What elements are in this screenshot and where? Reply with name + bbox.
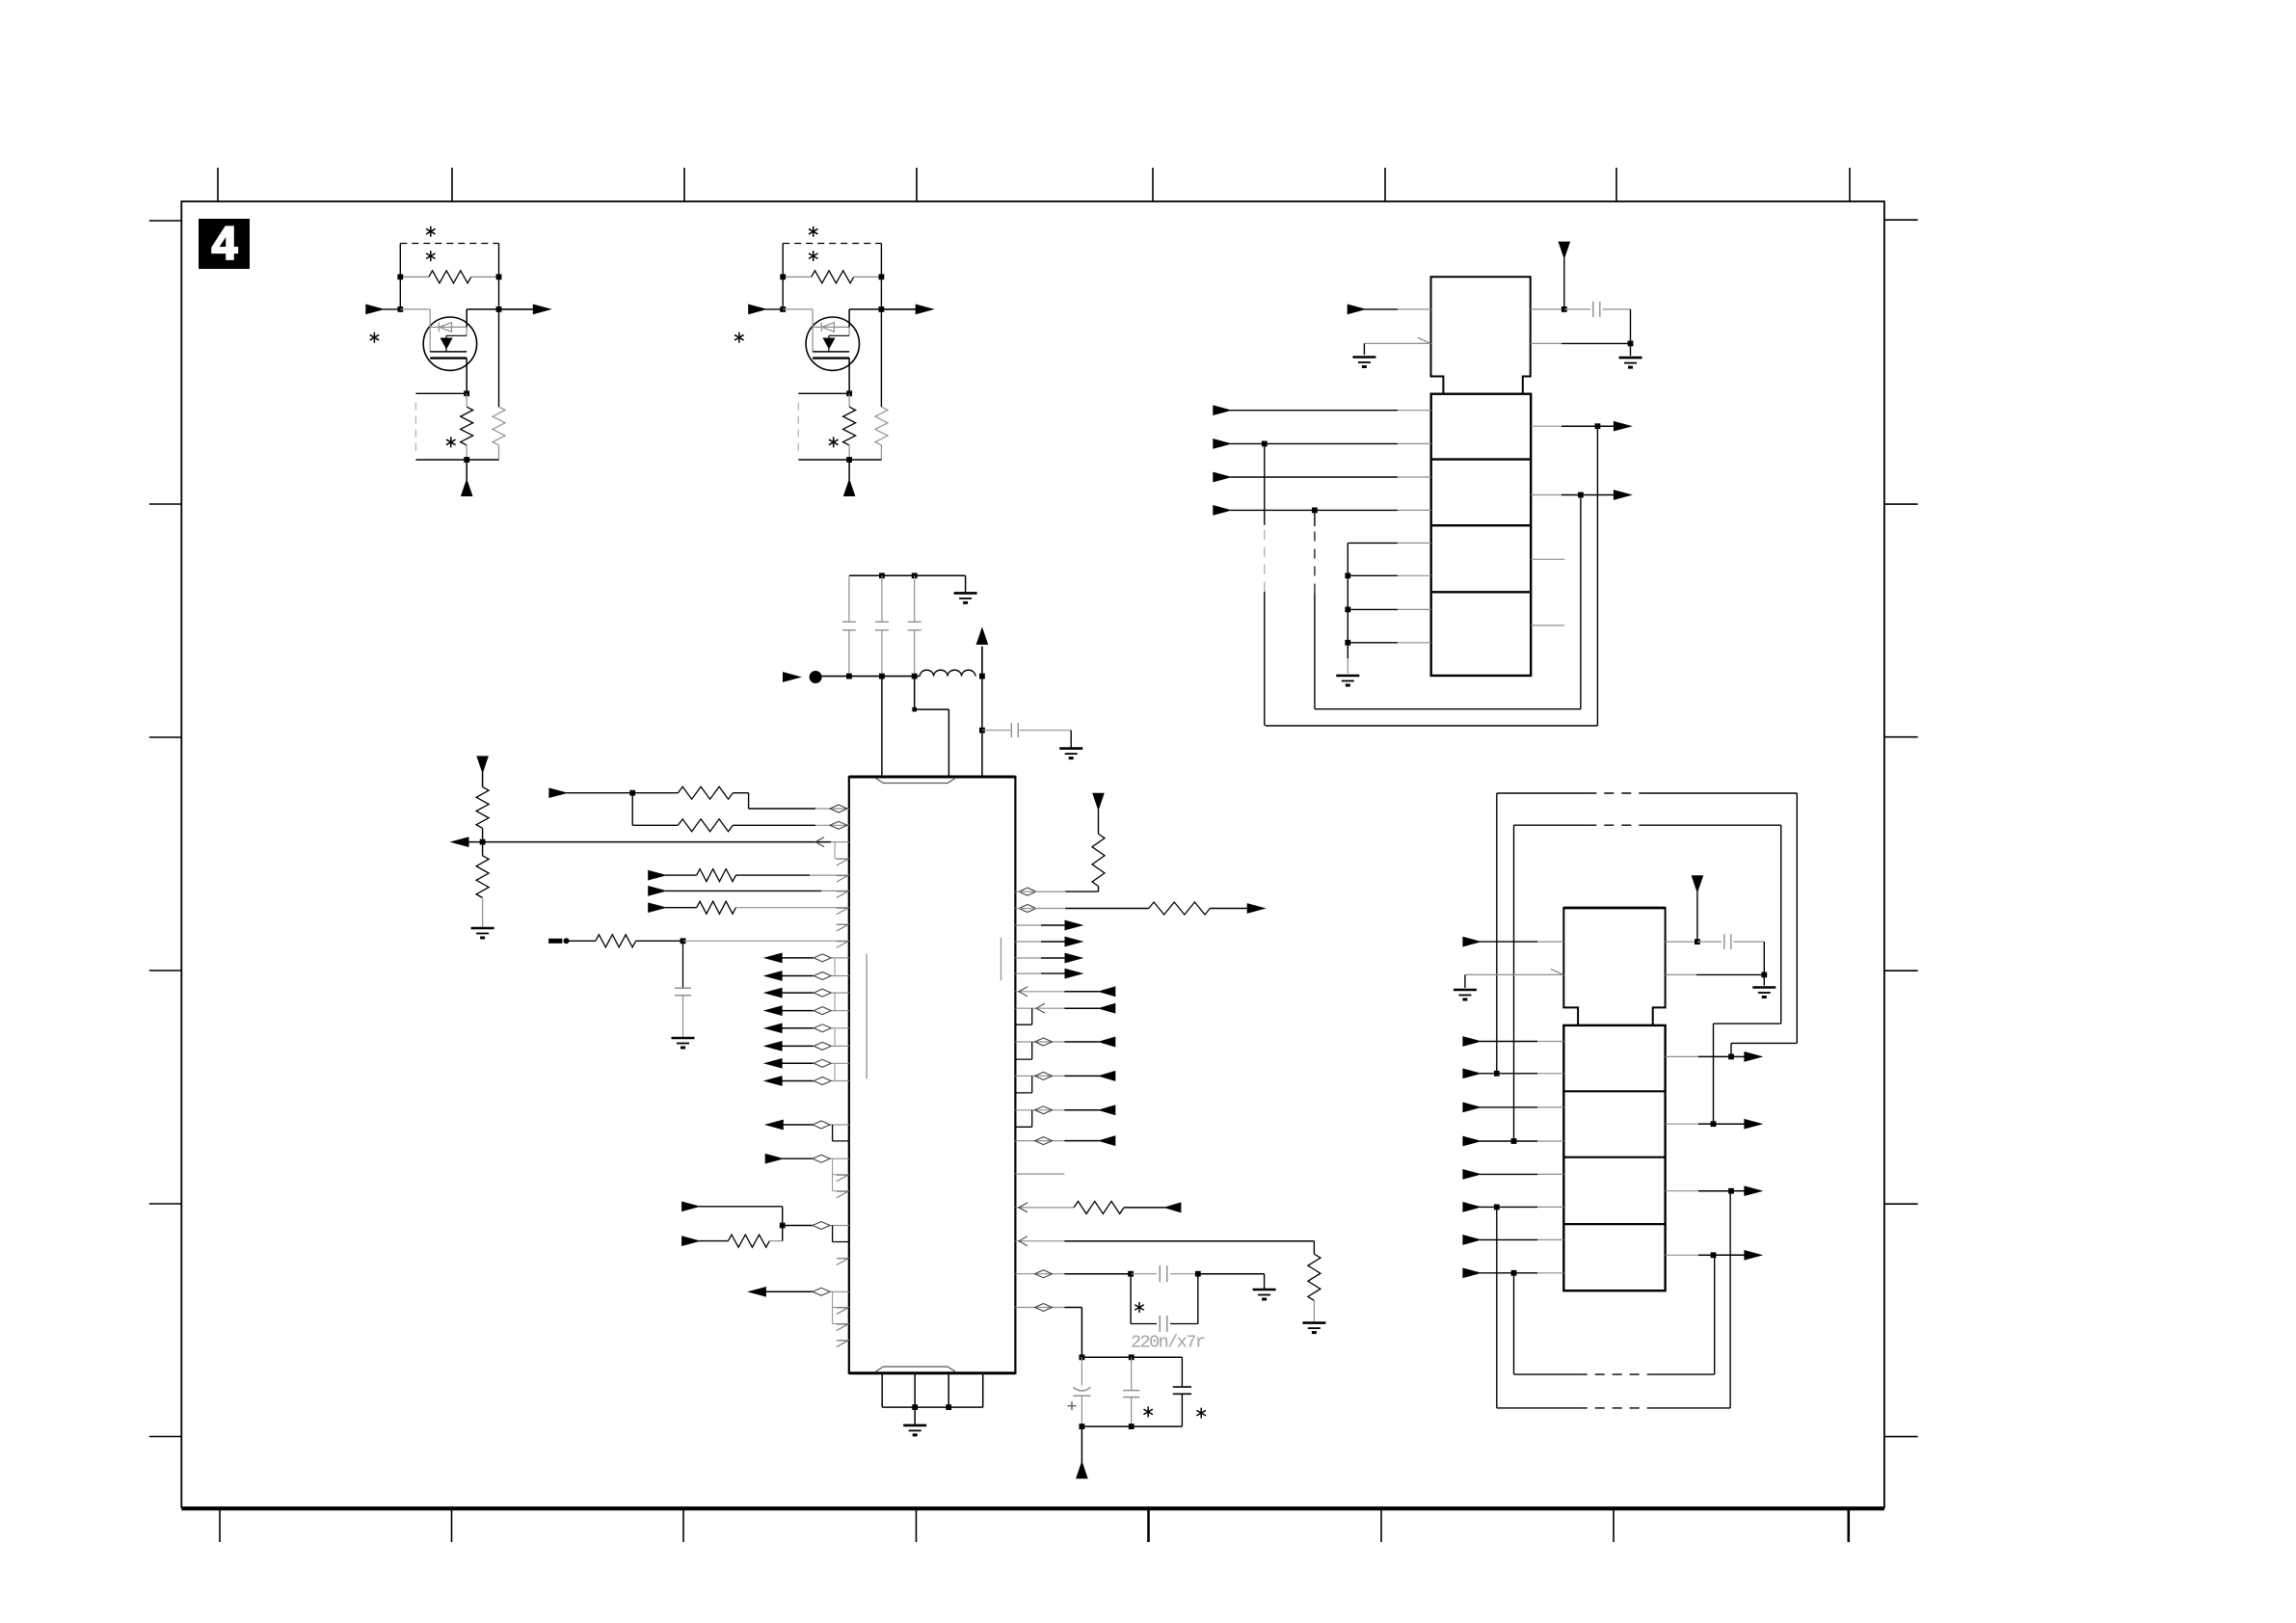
- pin diamond OL9: [813, 1121, 830, 1129]
- page border frame: [181, 201, 1884, 1507]
- node R1a: [1128, 1271, 1134, 1277]
- resistor R21: [1149, 902, 1211, 915]
- node FO1: [1728, 1054, 1734, 1060]
- nc stub CN1-O4: [1531, 625, 1564, 626]
- wire input to gate node 2: [765, 308, 783, 310]
- output arrow OL3: [765, 988, 783, 997]
- output wire CN1-O1: [1531, 425, 1562, 427]
- transistor Q1 drain lead: [466, 309, 467, 328]
- wire OL4: [782, 1010, 814, 1012]
- node U2a: [1562, 306, 1567, 312]
- node 1C: [397, 306, 403, 312]
- transistor Q1 substrate arrow: [445, 335, 447, 352]
- wire node T4 to IC pin: [881, 677, 883, 777]
- node R2d: [1129, 1423, 1135, 1429]
- input arrow IN5: [765, 1155, 783, 1163]
- capacitor C3: [914, 575, 916, 622]
- input arrow IN1: [549, 788, 567, 797]
- node 2B: [879, 274, 885, 279]
- supply arrow (down) at divider: [477, 757, 488, 773]
- node F5: [1494, 1071, 1500, 1077]
- input feed IR6: [1015, 1140, 1064, 1142]
- ground (CN1 bus): [1336, 675, 1359, 678]
- output arrow OL9: [766, 1120, 784, 1129]
- input arrow CN1-1: [1214, 406, 1231, 414]
- supply arrow 2 (up): [848, 460, 850, 480]
- asterisk C7: [1138, 1302, 1140, 1313]
- pin diamond OL4: [814, 1007, 831, 1015]
- IC bottom pin wires: [881, 1373, 883, 1407]
- feedback loop B: [1580, 495, 1582, 709]
- wire T5 jog to IC pin: [914, 677, 916, 710]
- wire CN2 input 6: [1480, 1206, 1537, 1208]
- capacitor C10: [1181, 1357, 1183, 1387]
- transistor Q2 drain lead: [848, 309, 850, 328]
- node L4: [780, 1223, 786, 1229]
- bottom rail wire 1: [415, 459, 498, 461]
- inductor L1: [915, 676, 921, 678]
- input arrow IN3: [649, 887, 666, 895]
- node U3a: [1695, 939, 1700, 945]
- wire CN2 input 2: [1480, 1073, 1537, 1075]
- wire pin 942: [1015, 908, 1065, 910]
- outer feedback rect (bottom block): [1496, 793, 1498, 1074]
- node T1: [879, 572, 885, 578]
- node GB1: [1345, 572, 1350, 578]
- wire bus to ground: [914, 1407, 916, 1424]
- input arrow U3: [1463, 937, 1481, 945]
- ground (top rail): [954, 592, 977, 595]
- capacitor C4 (to ground): [982, 730, 1010, 732]
- transistor Q2 substrate arrow: [828, 335, 830, 352]
- node 1B: [496, 274, 502, 279]
- wire IN3 to pin: [665, 890, 821, 891]
- node F4: [1578, 492, 1584, 498]
- node 1F: [464, 457, 469, 463]
- wire node B down to output rail 2: [880, 277, 882, 309]
- right border tick marks: [1884, 219, 1918, 221]
- output arrow CN2-O2: [1714, 1123, 1746, 1125]
- wire IN5: [783, 1157, 814, 1159]
- node R2a: [1080, 1354, 1085, 1360]
- output wire CN2-O2: [1666, 1123, 1698, 1125]
- capacitor C6 (220n upper): [1131, 1273, 1157, 1275]
- resistor R11 (gate-drain): [400, 276, 429, 278]
- capacitor C11: [1564, 308, 1590, 310]
- wire input to gate node 1: [383, 308, 400, 310]
- wire U2 input: [1365, 308, 1398, 310]
- pin diamond IN6: [813, 1222, 830, 1230]
- input feed IR1: [1015, 991, 1064, 993]
- pin diamond OL3: [814, 989, 831, 997]
- output arrow CN2-O3: [1731, 1190, 1746, 1192]
- pin diamond R925: [1019, 888, 1036, 895]
- wire U3 input: [1480, 941, 1537, 943]
- node FO2: [1711, 1121, 1717, 1127]
- transistor Q2 gate lead: [783, 308, 813, 310]
- long wire row 873: [468, 841, 832, 843]
- node 2A: [780, 274, 786, 279]
- node T5: [912, 674, 918, 679]
- IC bottom ground bus: [882, 1406, 983, 1408]
- transistor Q1 channel plate: [430, 357, 467, 359]
- capacitor C1: [848, 575, 850, 622]
- pin diamond row 839: [830, 805, 847, 812]
- capacitor C5: [682, 941, 684, 988]
- output arrow OL4: [765, 1006, 783, 1015]
- wire U3b to ground: [1763, 974, 1765, 985]
- pin staple group left: [834, 958, 836, 976]
- pin diamond OL7: [814, 1059, 831, 1067]
- connector CN2 outline: [1563, 1025, 1665, 1290]
- wire node C up to resistor 2: [782, 277, 784, 309]
- resistor R14: [665, 874, 697, 876]
- output arrow OL7: [765, 1059, 783, 1068]
- wire CN2 input 7: [1480, 1238, 1537, 1240]
- wire U2 gnd pin: [1531, 342, 1562, 344]
- asterisk marker above resistor 1: [430, 226, 432, 237]
- asterisk marker left of Q2: [738, 333, 740, 343]
- wire U3 left gnd: [1465, 973, 1563, 975]
- pin diamond OL10: [813, 1288, 830, 1295]
- page number label 4: [199, 219, 250, 269]
- wire CN2 input 3: [1480, 1106, 1537, 1108]
- pin diamond OL6: [814, 1042, 831, 1050]
- capacitor C12: [1697, 941, 1722, 943]
- node R2b: [1129, 1354, 1135, 1360]
- pin wedge row 924: [837, 891, 848, 898]
- input arrow IN7: [682, 1237, 700, 1245]
- IC U1 top inner bracket: [876, 779, 956, 784]
- output arrow OR4: [1015, 972, 1041, 974]
- capacitor C8 (electrolytic): [1081, 1357, 1082, 1385]
- pin wedge U2 left: [1418, 338, 1431, 344]
- wire U2 left gnd: [1364, 342, 1430, 344]
- wire OL2: [782, 975, 814, 977]
- outer feedback rect lower: [1496, 1207, 1498, 1408]
- resistor R12 (source): [466, 393, 467, 407]
- resistor R17: [699, 1240, 728, 1242]
- ground (U2 right): [1619, 357, 1642, 359]
- node GB3: [1345, 640, 1350, 646]
- pin diamond IN5: [813, 1155, 830, 1162]
- node GB2: [1345, 607, 1350, 613]
- plus sign C8: [1068, 1405, 1077, 1407]
- ground (C4): [1059, 747, 1082, 750]
- input arrow CN2-3: [1463, 1103, 1481, 1111]
- input feed IR3: [1015, 1041, 1064, 1043]
- IC U1 internal bus line B: [1001, 938, 1002, 981]
- wire node L4 to pin: [783, 1225, 814, 1227]
- supply arrow 1 (up): [466, 460, 467, 480]
- regulator U3 body: [1563, 908, 1665, 1025]
- node L1: [629, 790, 635, 796]
- resistor R22 (source): [848, 393, 850, 407]
- node FO3: [1728, 1188, 1734, 1194]
- output arrow OL10: [749, 1288, 766, 1296]
- pin wedge row 890: [837, 859, 848, 865]
- node R1b: [1195, 1271, 1201, 1277]
- output wire CN1-O2: [1531, 494, 1562, 496]
- wire CN1 input 1: [1230, 410, 1398, 412]
- output arrow OUT-L: [452, 838, 469, 846]
- dashed option-component box 1a: [400, 243, 498, 245]
- pin jog OL9: [832, 1125, 834, 1141]
- top border tick marks: [217, 168, 219, 201]
- gnd bus stub 2: [1348, 608, 1398, 610]
- gnd bus stub 3: [1348, 642, 1398, 644]
- pin diamond row 856: [830, 821, 847, 829]
- output arrow OR2: [1015, 941, 1041, 943]
- ground (U3 left): [1454, 989, 1477, 992]
- asterisk marker lower resistor 1: [450, 437, 452, 447]
- supply arrow (down) U2: [1559, 242, 1569, 258]
- input arrow IN4: [649, 903, 666, 912]
- input arrow CN2-1: [1463, 1037, 1481, 1046]
- bottom rail wire 2: [798, 459, 881, 461]
- IC U1 bottom edge accent: [849, 1371, 1016, 1374]
- input arrow U2: [1348, 305, 1365, 313]
- svg-text:220n/x7r: 220n/x7r: [1131, 1333, 1206, 1353]
- inner feedback rect lower: [1513, 1273, 1515, 1374]
- resistor R15: [665, 907, 697, 909]
- output arrow 2 (source rail): [881, 308, 916, 310]
- resistor R23 (source parallel): [880, 309, 882, 407]
- node F1 (feedback A tap): [1262, 441, 1268, 447]
- asterisk marker above resistor 2: [813, 226, 814, 237]
- transistor Q2 body-diode: [813, 326, 849, 328]
- output arrow OR0: [1247, 904, 1265, 913]
- node 1D: [496, 306, 502, 312]
- dashed option-component box 2a: [783, 243, 881, 245]
- cap bank bottom rail: [1081, 1425, 1182, 1427]
- output wire CN2-O1: [1666, 1055, 1698, 1057]
- output arrow OL1: [765, 953, 783, 962]
- node 1A: [397, 274, 403, 279]
- input arrow CN2-5: [1463, 1170, 1481, 1179]
- output arrow OR1: [1015, 924, 1041, 926]
- supply input arrow (VCC in): [784, 673, 801, 681]
- wire OL3: [782, 992, 814, 994]
- dashed option box lower 2: [797, 403, 799, 452]
- ground (C5): [672, 1037, 695, 1040]
- supply arrow (down) U3: [1692, 876, 1702, 892]
- ground (R23): [1302, 1321, 1325, 1324]
- asterisk C9: [1147, 1406, 1149, 1417]
- node F7: [1494, 1205, 1500, 1211]
- transistor Q1 body-diode: [430, 326, 467, 328]
- pin wedges lower-left: [837, 1259, 848, 1265]
- wire row 1321: [1015, 1273, 1064, 1275]
- transistor Q2 gate plate: [813, 351, 849, 353]
- node T4: [879, 674, 885, 679]
- output wire CN2-O3: [1666, 1190, 1698, 1192]
- pin chevron row 873: [815, 838, 824, 847]
- transistor Q1 gate lead: [400, 308, 430, 310]
- capacitor C7 (220n lower): [1130, 1274, 1132, 1324]
- output arrow OL5: [765, 1024, 783, 1032]
- connector CN2 divider 3: [1563, 1223, 1665, 1225]
- transistor Q2 channel plate: [813, 357, 849, 359]
- input arrow IN6: [682, 1202, 700, 1211]
- pin wedge row 941: [837, 908, 848, 915]
- resistor R10: [632, 792, 678, 794]
- asterisk marker left of Q1: [373, 333, 375, 343]
- resistor R12 (upper divider): [476, 787, 489, 829]
- input arrow CN2-2: [1463, 1069, 1481, 1078]
- node L3: [681, 938, 686, 944]
- wire CN1 input 4: [1230, 509, 1398, 511]
- wire CN2 input 5: [1480, 1173, 1537, 1175]
- wire OL8: [782, 1080, 814, 1082]
- input arrow CN1-2: [1214, 439, 1231, 448]
- output arrow CN1-O2: [1581, 494, 1615, 496]
- node G2: [946, 1404, 951, 1410]
- pin staples OL10: [832, 1291, 834, 1323]
- input feed IR8: [1015, 1240, 1064, 1242]
- output arrow CN2-O1: [1731, 1055, 1746, 1057]
- nc stub row 1218: [1015, 1173, 1064, 1175]
- wire T6 down to IC pin: [981, 677, 983, 777]
- node F8: [1511, 1270, 1517, 1276]
- resistor R13 (lower divider): [482, 842, 484, 856]
- wire CN2 input 8: [1480, 1272, 1537, 1274]
- wire pin 925: [1015, 891, 1065, 892]
- wire IN1 to node: [566, 792, 632, 794]
- inner feedback rect (bottom block): [1513, 825, 1515, 1141]
- input arrow CN1-4: [1214, 506, 1231, 515]
- connector CN1 divider 2: [1431, 524, 1532, 526]
- input feed IR5: [1015, 1109, 1064, 1111]
- asterisk marker lower resistor 2: [833, 437, 835, 447]
- stub source mark: [548, 939, 562, 944]
- transistor Q1 source lead: [466, 359, 467, 394]
- nc stub CN1-O3: [1531, 558, 1564, 560]
- output arrow CN2-O4: [1714, 1254, 1746, 1256]
- resistor R13 (source parallel): [498, 309, 500, 407]
- asterisk C10: [1200, 1408, 1202, 1419]
- transistor Q2 body circle: [806, 317, 859, 370]
- dashed option box lower 1: [414, 403, 416, 452]
- node G1: [912, 1404, 918, 1410]
- transistor Q1 body circle: [423, 317, 476, 370]
- pin jog IN6: [832, 1226, 834, 1242]
- supply input dot: [810, 671, 822, 683]
- pin diamond OL2: [814, 972, 831, 980]
- node U3b: [1761, 972, 1767, 978]
- regulator U2 body: [1431, 277, 1531, 393]
- bottom border tick marks: [219, 1509, 221, 1542]
- input arrow 1 (gate): [366, 305, 384, 313]
- supply arrow (up, after inductor): [981, 647, 983, 677]
- input arrow CN2-4: [1463, 1136, 1481, 1145]
- pin diamond OL8: [814, 1078, 831, 1085]
- node 2F: [846, 457, 852, 463]
- pin wedge row 976: [837, 942, 848, 948]
- top decoupling rail wire: [849, 574, 966, 576]
- connector CN1 divider 1: [1431, 458, 1532, 460]
- ground (IC bottom): [903, 1424, 926, 1427]
- node 2D: [879, 306, 885, 312]
- wire OL9: [783, 1124, 814, 1126]
- pin diamond R942: [1019, 905, 1036, 913]
- input arrow CN2-6: [1463, 1203, 1481, 1211]
- output arrow OL6: [765, 1042, 783, 1051]
- input arrow CN1-3: [1214, 472, 1231, 481]
- pin wedge row 959: [837, 925, 848, 932]
- connector CN1 outline: [1431, 394, 1532, 676]
- IC U1 top edge accent: [849, 776, 1016, 779]
- wire row 1356: [1015, 1307, 1064, 1309]
- supply arrow (up) cap bank: [1081, 1426, 1082, 1466]
- wire CN2 input 4: [1480, 1140, 1537, 1142]
- asterisk marker below dashed line 2: [813, 251, 814, 261]
- node T8: [979, 728, 985, 733]
- input feed IR4: [1015, 1075, 1064, 1077]
- input arrow 2 (gate): [749, 305, 766, 313]
- output arrow OL2: [765, 971, 783, 980]
- pin diamond OL5: [814, 1024, 831, 1032]
- wire rail corner to ground: [965, 575, 967, 592]
- node T7: [912, 707, 917, 712]
- ground (U2 left): [1352, 356, 1375, 359]
- gnd bus wire CN1: [1347, 543, 1348, 658]
- wire U2 out: [1531, 308, 1564, 310]
- resistor R11: [632, 824, 678, 826]
- node T2: [912, 572, 918, 578]
- svg-text:4: 4: [212, 219, 238, 270]
- IC U1 body: [849, 777, 1016, 1373]
- cap bank top rail: [1081, 1356, 1182, 1358]
- output arrow OL8: [765, 1077, 783, 1085]
- wire OL7: [782, 1062, 814, 1064]
- pin wedge row 908: [837, 876, 848, 883]
- wire CN1 input 2: [1230, 442, 1398, 444]
- node T6: [979, 674, 985, 679]
- node 2C: [780, 306, 786, 312]
- input arrow IN2: [649, 870, 666, 879]
- output arrow CN1-O1: [1597, 425, 1615, 427]
- wire source node to option box 2: [798, 392, 849, 394]
- output arrow 1 (source rail): [499, 308, 534, 310]
- input arrow CN2-7: [1463, 1236, 1481, 1244]
- transistor Q2 source lead: [848, 359, 850, 394]
- node T3: [846, 674, 852, 679]
- connector CN1 divider 3: [1431, 591, 1532, 593]
- connector CN2 divider 2: [1563, 1157, 1665, 1158]
- wire U3 gnd pin: [1666, 973, 1696, 975]
- wire OL6: [782, 1045, 814, 1047]
- capacitor C9: [1131, 1357, 1133, 1390]
- wire source node to option box 1: [415, 392, 467, 394]
- IC U1 bottom inner bracket: [876, 1367, 956, 1371]
- resistor R16: [569, 940, 596, 942]
- pin diamond OL1: [814, 954, 831, 962]
- wire U3 out: [1666, 941, 1697, 943]
- capacitor C2: [881, 575, 883, 622]
- node 1E (source): [464, 390, 469, 396]
- input arrow CN2-8: [1463, 1268, 1481, 1277]
- wire CN2 input 1: [1480, 1041, 1537, 1043]
- wire OL1: [782, 957, 814, 959]
- pin staples IN5: [832, 1158, 834, 1191]
- wire CN1 input 3: [1230, 476, 1398, 478]
- output wire CN2-O4: [1666, 1254, 1698, 1256]
- regulator U3 top accent: [1563, 907, 1665, 910]
- node F6: [1511, 1138, 1517, 1144]
- pin wedge U3 left: [1551, 970, 1564, 975]
- ground (C6): [1253, 1289, 1276, 1291]
